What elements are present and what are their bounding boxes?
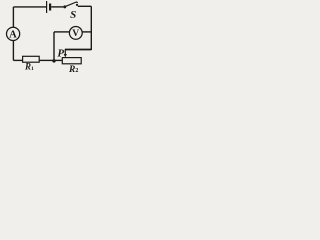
slider arrowhead: [64, 54, 67, 57]
wire junction to R1: [39, 59, 54, 61]
background: [0, 0, 107, 79]
svg-text:1: 1: [31, 66, 34, 72]
switch right contact dot: [76, 4, 78, 6]
svg-text:V: V: [72, 29, 79, 39]
svg-text:R: R: [24, 61, 31, 71]
wire left rail lower: [12, 41, 14, 61]
wire battery to switch: [51, 6, 63, 8]
wire mid rail down: [53, 32, 55, 61]
switch left contact dot: [63, 5, 66, 8]
ammeter circle: [7, 27, 20, 40]
wire top-left horizontal: [13, 6, 46, 8]
switch blade: [65, 2, 78, 7]
svg-text:A: A: [9, 29, 17, 40]
slider arrow stem: [64, 49, 66, 55]
wire right rail down: [90, 6, 92, 50]
wire left rail upper: [12, 7, 14, 27]
rheostat R2 box: [62, 58, 81, 64]
wire R2 left to junction: [54, 59, 62, 61]
svg-text:2: 2: [75, 68, 78, 74]
wire voltmeter branch left: [54, 31, 69, 33]
junction node dot: [52, 59, 55, 62]
svg-text:S: S: [70, 9, 76, 21]
wire voltmeter branch right: [82, 31, 91, 33]
svg-text:R: R: [68, 65, 75, 75]
wire R1 to bottom-left corner: [13, 59, 22, 61]
voltmeter U-V circle: [69, 27, 82, 40]
resistor R1 box: [23, 56, 40, 62]
battery short plate: [49, 4, 51, 11]
slider wire P to right rail: [65, 49, 91, 51]
wire switch to top-right corner: [78, 5, 92, 7]
battery long plate: [46, 1, 48, 13]
